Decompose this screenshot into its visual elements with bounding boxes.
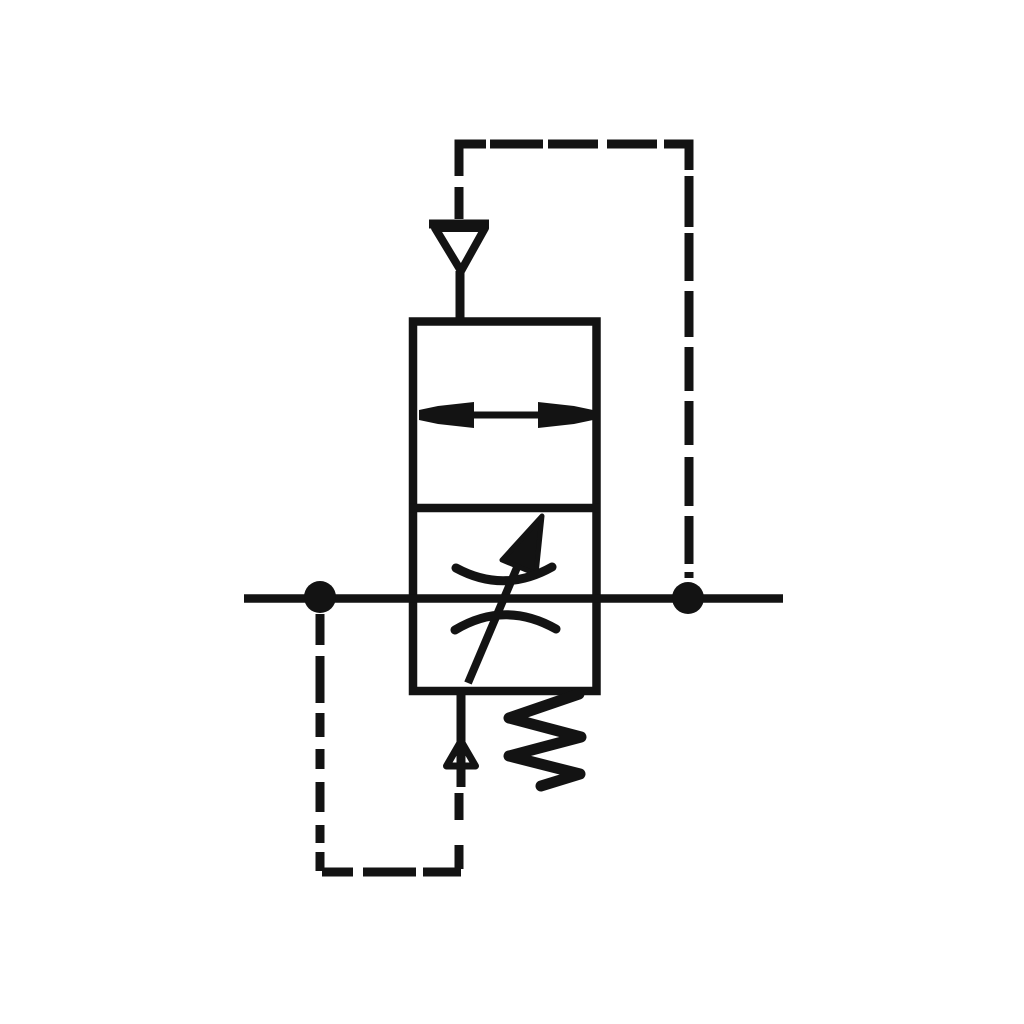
wire from triangle apex to valve body top: [456, 271, 465, 322]
throttle arrow head: [502, 516, 542, 574]
double-headed arrow shaft: [470, 412, 540, 419]
right vertical dashed pilot wire: [685, 176, 694, 227]
left junction dot: [304, 581, 336, 613]
bottom horizontal dashed pilot wire: [322, 868, 353, 877]
top horizontal dashed pilot wire: [490, 140, 543, 149]
pilot vent triangle (hollow, pointing down): [435, 228, 485, 271]
main flow line: [244, 594, 783, 603]
lower right vertical dashed pilot wire: [455, 845, 464, 869]
drain wire below valve body: [457, 691, 466, 787]
top-right corner dash of pilot loop: [664, 144, 689, 170]
divider line inside valve body: [409, 504, 600, 513]
top-left corner dash of pilot loop: [459, 144, 486, 176]
valve body B1: [413, 322, 597, 692]
double-headed arrow right head: [538, 402, 593, 428]
drain flow arrowhead (hollow, pointing up): [447, 741, 476, 766]
dashed pilot wire above triangle: [455, 187, 464, 219]
right junction dot: [672, 582, 704, 614]
spring: [509, 694, 581, 786]
pilot vent triangle top bar: [429, 220, 489, 229]
lower restrictor arc: [455, 615, 556, 630]
left vertical dashed pilot wire below left dot: [316, 614, 325, 645]
throttle arrow shaft: [468, 551, 524, 683]
double-headed arrow left head: [419, 402, 474, 428]
upper restrictor arc: [456, 567, 552, 581]
